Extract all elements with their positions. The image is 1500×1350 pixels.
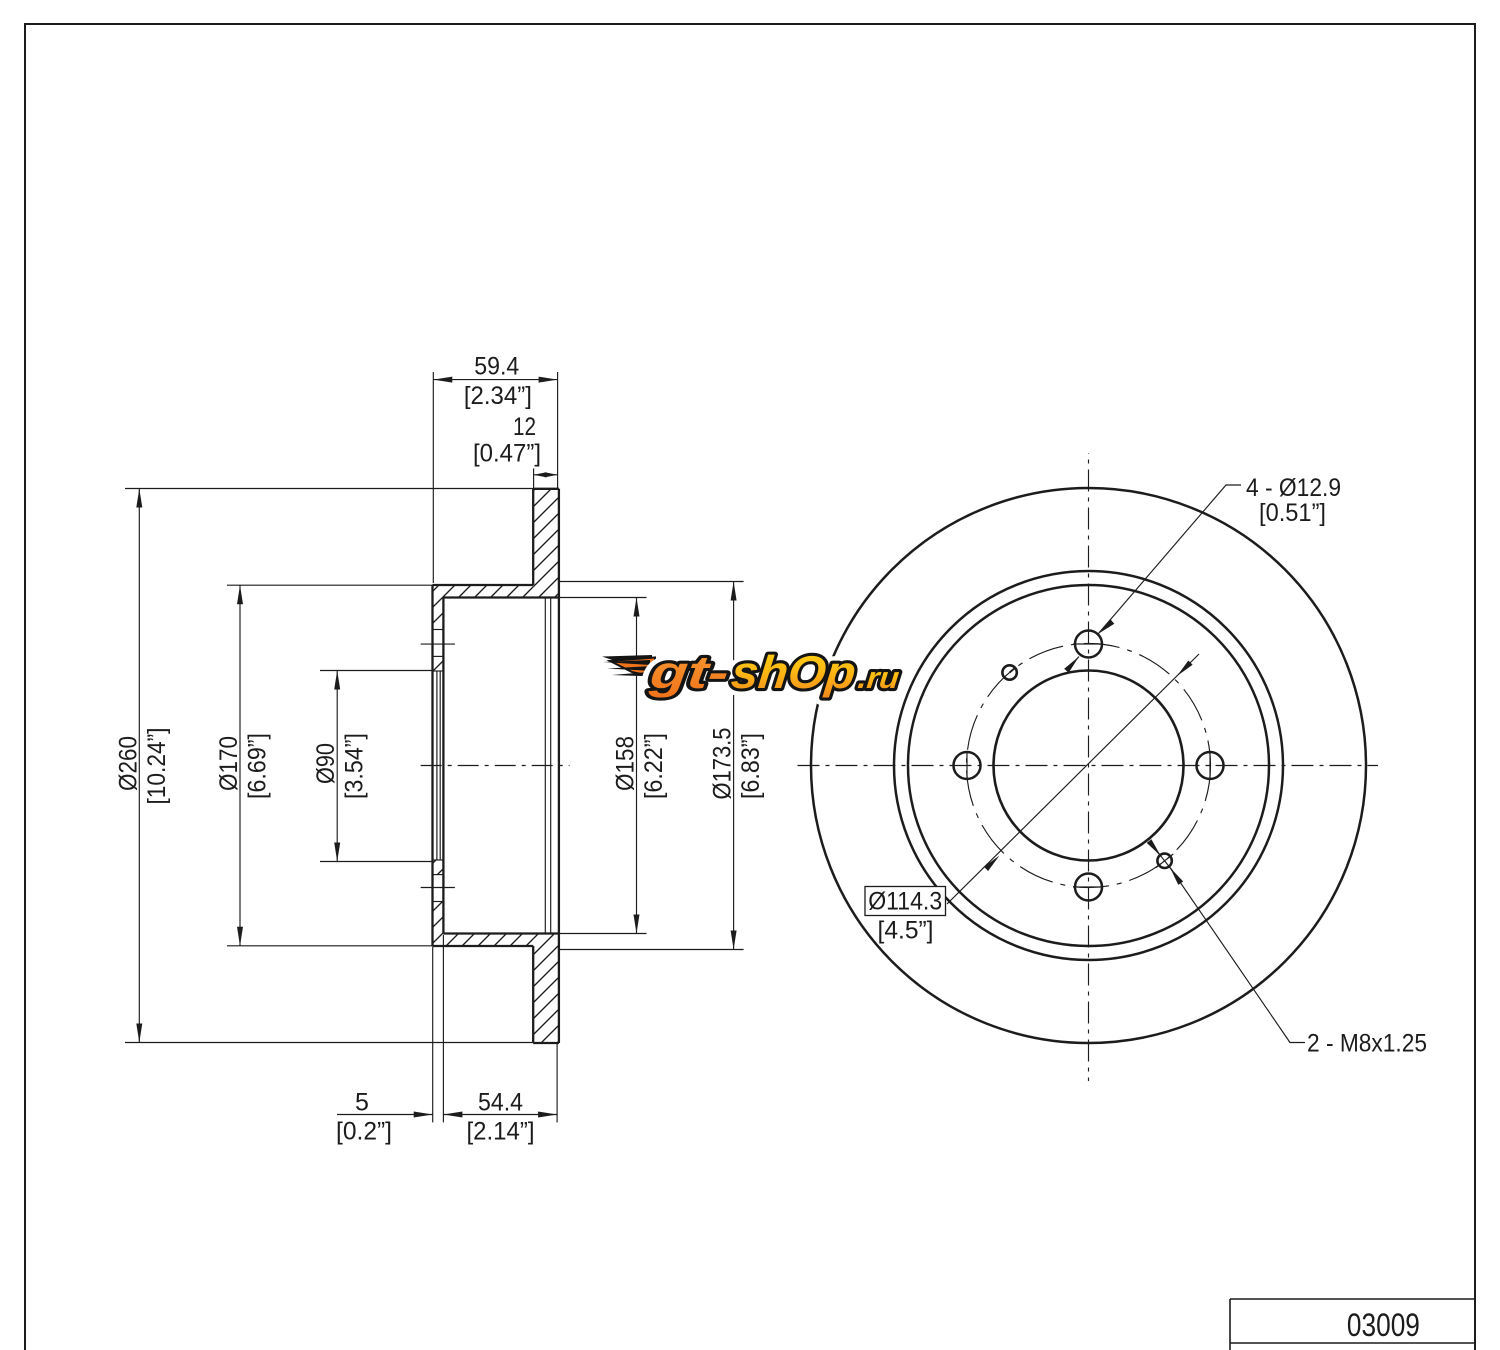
svg-text:59.4: 59.4 <box>474 353 519 381</box>
svg-text:54.4: 54.4 <box>478 1088 523 1116</box>
svg-text:[6.22”]: [6.22”] <box>640 733 668 799</box>
svg-text:[0.51”]: [0.51”] <box>1259 499 1326 527</box>
svg-text:Ø173.5: Ø173.5 <box>709 728 737 800</box>
svg-text:gt-: gt- <box>647 646 732 698</box>
svg-text:Ø114.3: Ø114.3 <box>868 888 942 916</box>
svg-text:03009: 03009 <box>1347 1307 1420 1343</box>
svg-text:[0.47”]: [0.47”] <box>473 440 541 468</box>
svg-text:.ru: .ru <box>856 662 900 695</box>
svg-text:[4.5”]: [4.5”] <box>878 917 934 945</box>
svg-text:[6.83”]: [6.83”] <box>737 733 765 799</box>
svg-text:Ø90: Ø90 <box>312 743 340 784</box>
svg-text:Ø260: Ø260 <box>114 736 142 791</box>
svg-text:[6.69”]: [6.69”] <box>244 733 272 799</box>
svg-text:[2.34”]: [2.34”] <box>464 382 532 410</box>
svg-text:Ø170: Ø170 <box>215 736 243 791</box>
svg-text:2 - M8x1.25: 2 - M8x1.25 <box>1307 1029 1427 1057</box>
svg-text:12: 12 <box>513 413 536 441</box>
svg-text:[0.2”]: [0.2”] <box>336 1118 392 1146</box>
svg-text:shOp: shOp <box>729 646 858 698</box>
svg-text:5: 5 <box>355 1088 369 1116</box>
svg-text:Ø158: Ø158 <box>612 736 640 791</box>
svg-text:[2.14”]: [2.14”] <box>467 1118 535 1146</box>
svg-text:[3.54”]: [3.54”] <box>341 733 369 799</box>
svg-text:4 - Ø12.9: 4 - Ø12.9 <box>1246 474 1341 502</box>
svg-text:[10.24”]: [10.24”] <box>143 728 171 805</box>
